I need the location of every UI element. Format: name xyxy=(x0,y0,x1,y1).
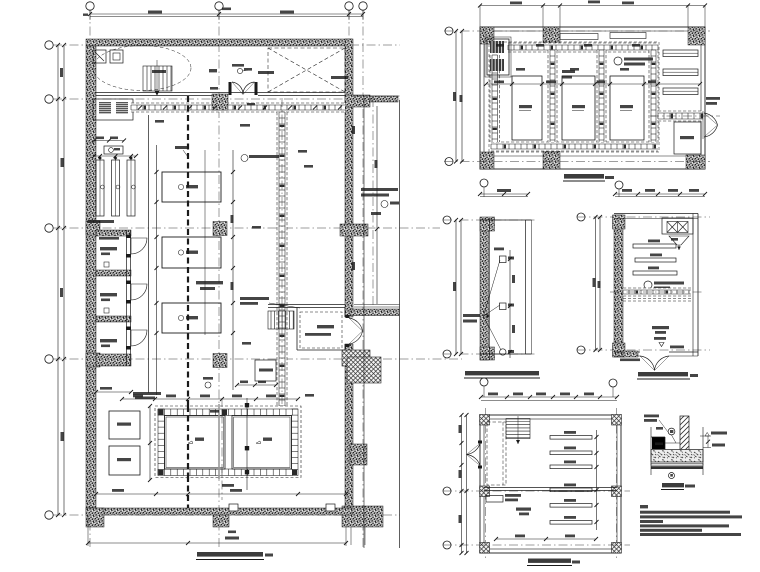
pump hall label xyxy=(196,281,223,284)
kitchen waste note xyxy=(249,155,279,158)
pump foundation P3 xyxy=(162,303,221,333)
grid bubble left B xyxy=(45,95,53,103)
heater unit 3 xyxy=(127,160,135,216)
room 3 door xyxy=(131,330,147,346)
riser left dim lines xyxy=(455,220,457,354)
grid line vertical axis 4 (x=363) xyxy=(362,10,364,548)
grid bubble left A xyxy=(45,41,53,49)
pump pit band top xyxy=(508,43,658,52)
dimension line under tank xyxy=(96,493,346,495)
grid bubble top 1 xyxy=(86,2,94,10)
pump room column top axis xyxy=(543,27,560,46)
meter room walls xyxy=(296,308,298,351)
collector room inner wall xyxy=(484,419,617,549)
room 2 door xyxy=(131,284,147,300)
roof tank box with X xyxy=(662,218,693,234)
pump room annotation circle xyxy=(614,57,622,65)
collector room corner column 4 xyxy=(612,543,622,554)
hydrant label left of door xyxy=(209,69,217,72)
rooms inner wall xyxy=(126,230,128,366)
riser wall top block xyxy=(480,217,495,231)
grid bubble left C xyxy=(45,224,53,232)
grid bubble left D xyxy=(45,355,53,363)
leader note top xyxy=(175,146,187,149)
pump bay dimension line left xyxy=(156,145,158,395)
hot water left dim lines xyxy=(595,217,597,350)
tank dimension line above xyxy=(122,398,298,400)
meter room label xyxy=(317,325,334,328)
room 1 door xyxy=(131,238,147,254)
hall equipment label xyxy=(258,71,274,74)
dimension text small (top) xyxy=(222,8,231,11)
hot water pipe 2 xyxy=(635,258,676,262)
grid line vertical axis 2 (x=219) xyxy=(218,10,220,548)
heater connection marks xyxy=(98,156,102,160)
tick marks along corridor band xyxy=(138,106,142,110)
detail symbol circle P xyxy=(668,428,675,435)
notes line 3 xyxy=(640,520,663,523)
pump room small dim text xyxy=(496,44,504,47)
collector room centerline vertical left xyxy=(485,408,487,558)
hot water room right wall xyxy=(692,214,694,357)
hot water pipe 3 xyxy=(633,271,677,275)
void with cross bracing (dashed) xyxy=(268,48,345,92)
riser title xyxy=(465,371,539,375)
hot water bottom left block xyxy=(623,351,638,357)
grid line horizontal axis D (y=359) xyxy=(53,358,462,360)
pump room corner block bottom-right xyxy=(686,155,705,169)
hot water room grid bubble top xyxy=(577,213,585,221)
room partition wall top stub xyxy=(96,230,131,236)
grid bubble top 3 xyxy=(345,2,353,10)
electrical panel 2 in entrance xyxy=(110,50,123,63)
bottom small squares on wall xyxy=(229,504,238,511)
detail floor slab concrete xyxy=(651,450,703,463)
column at corridor grid-2 crossing xyxy=(212,94,228,110)
collector pipe bar 4 xyxy=(550,488,592,492)
pump pit band right xyxy=(649,50,658,142)
main plan right wall upper segment xyxy=(345,39,353,317)
hot water room left wall xyxy=(614,215,623,357)
right wall stepped block lower xyxy=(347,357,381,383)
water tank chain wall band xyxy=(158,409,298,476)
detail dim text C20 xyxy=(655,443,663,446)
collector pipe bar 3 xyxy=(550,465,592,469)
collector room staircase xyxy=(506,419,530,439)
sump pit dim xyxy=(237,384,276,386)
staircase in entrance hall xyxy=(143,60,172,95)
room 3 label xyxy=(100,339,117,342)
hot water room column top xyxy=(613,215,626,229)
collector room corner column 1 xyxy=(480,415,490,426)
main riser bold dashed line xyxy=(187,96,189,508)
notes line 1 xyxy=(640,511,730,514)
right boundary line x=399.5 xyxy=(399,100,401,548)
collector room divider wall xyxy=(484,487,617,489)
right notes line 2 xyxy=(361,194,389,197)
louver grille 2 xyxy=(116,102,128,114)
main plan title xyxy=(197,552,263,557)
pump room grid bubble bottom xyxy=(445,158,453,166)
misc small dimension marks main hall xyxy=(240,124,250,127)
grid bubble top 2 xyxy=(215,2,223,10)
detail side lines xyxy=(650,427,652,475)
note fire hydrant hole xyxy=(331,76,348,79)
right wall stepped block upper xyxy=(342,350,370,366)
floor drain room2 xyxy=(104,308,109,313)
right corridor lines at y=304-307 xyxy=(354,304,400,306)
detail black waterstop xyxy=(652,437,665,449)
collector room label xyxy=(516,508,531,511)
pump room outer wall xyxy=(480,27,705,169)
tank 2 label xyxy=(263,438,272,441)
notes line 5 xyxy=(640,529,702,532)
door side text xyxy=(670,346,684,349)
main plan top wall xyxy=(86,39,352,46)
main plan title scale xyxy=(265,554,273,557)
drain hub 1 xyxy=(500,256,507,263)
collector pipe bar 6 xyxy=(550,521,592,525)
funnel below tank xyxy=(669,236,689,245)
tank internal pipe line xyxy=(246,398,248,490)
pump foundation B xyxy=(562,76,595,140)
riser diagram grid bubble bottom xyxy=(443,350,451,358)
right small label xyxy=(371,212,381,215)
collector small box below divider xyxy=(486,496,503,503)
pump room top dimension line xyxy=(480,5,705,7)
collector room corner column 3 xyxy=(480,543,490,554)
pump bay dim texts xyxy=(231,215,234,223)
collector room top ruler bubble 2 xyxy=(609,379,617,387)
pump room corner block top-right xyxy=(688,27,705,45)
water tank outer dashed boundary xyxy=(155,406,301,478)
pump pit band internal 1 xyxy=(548,50,557,142)
pressure gauge box xyxy=(104,146,123,154)
column at left wall grid C xyxy=(86,221,100,235)
entrance room label xyxy=(152,70,166,73)
pump pit band internal 2 xyxy=(597,50,606,142)
grid line vertical axis 1 (x=90) xyxy=(89,10,91,548)
drain leader lines xyxy=(484,260,501,316)
meter room door leaf 1 xyxy=(349,318,363,344)
pump room column bottom axis xyxy=(543,151,560,169)
hot water room bottom wall xyxy=(614,351,640,353)
main plan left wall xyxy=(86,46,96,508)
extension lines below bottom wall xyxy=(350,527,352,545)
tank left dim xyxy=(149,406,151,480)
vertical line right of pumps xyxy=(204,150,206,335)
meter room dashed inner xyxy=(300,312,342,348)
main plan bottom left corner block xyxy=(86,508,104,527)
collector room corner column 2 xyxy=(612,415,622,426)
detail right level mark 1 xyxy=(700,435,711,437)
hot water pipe trench band xyxy=(623,288,691,296)
room 1 label xyxy=(100,247,117,250)
tank corner dark cells xyxy=(159,410,164,416)
main plan right wall lower segment xyxy=(345,344,353,508)
pump pit band bottom xyxy=(491,142,658,151)
pump foundation C xyxy=(610,76,644,140)
room 1 note xyxy=(99,237,119,240)
electrical cabinet box xyxy=(487,39,509,75)
collector room grid bubble bottom xyxy=(443,541,451,549)
collector room title xyxy=(528,559,571,563)
grid bubble left E xyxy=(45,511,53,519)
header pipe top 2 xyxy=(610,33,646,39)
detail layer dark band xyxy=(651,466,703,469)
pump room label B-4 xyxy=(562,70,575,73)
hot water room grid bubble bottom xyxy=(577,346,585,354)
double door in hall wall xyxy=(232,82,255,95)
louver grille 1 xyxy=(99,102,111,114)
door label xyxy=(706,97,720,100)
riser wall bottom block xyxy=(480,347,495,360)
hot water annotation circle xyxy=(644,281,652,289)
pad 1 left of tank xyxy=(109,411,140,439)
collector room centerline vertical right xyxy=(616,408,618,558)
detail ledge lines xyxy=(651,436,665,438)
pump room grid bubble top xyxy=(445,27,453,35)
grid line vertical axis 3 (x=349) xyxy=(348,10,350,100)
collector bottom dim xyxy=(496,538,596,540)
main plan bottom right corner block xyxy=(342,506,383,527)
header pipe top 1 xyxy=(560,34,598,40)
riser dim line right xyxy=(509,250,511,358)
room partition wall 2 xyxy=(96,270,131,276)
detail bottom circle xyxy=(669,473,675,479)
detail title xyxy=(662,483,684,487)
column at grid 2/D crossing xyxy=(213,354,227,368)
notes heading xyxy=(640,505,648,508)
detail layer line 1 xyxy=(651,464,703,466)
room 2 label xyxy=(100,293,117,296)
detail text 40 xyxy=(656,427,663,430)
meter room top wall xyxy=(268,304,345,306)
pump bay widths text xyxy=(516,68,525,71)
turning radius dashed ellipse in entrance xyxy=(93,46,191,91)
room corridor dim xyxy=(96,391,131,393)
vent cap symbol xyxy=(205,382,211,388)
trench dashed lines xyxy=(623,298,691,300)
tank compartment 1 (fire reserve) xyxy=(165,416,226,470)
pump room exit double door xyxy=(704,113,718,137)
right corridor top line xyxy=(353,95,400,97)
right wall band at y=309 xyxy=(350,309,399,316)
hot water room door xyxy=(640,356,669,371)
pump room left dim lines xyxy=(455,31,457,162)
grid line horizontal axis E (y=515) xyxy=(53,514,400,516)
left dimension text 3 xyxy=(60,288,63,297)
column at left wall grid D xyxy=(86,353,100,367)
tank bottom dim text xyxy=(222,484,234,487)
distribution pipes right 3 xyxy=(663,88,698,95)
pump pit outline dashed xyxy=(489,42,659,152)
riser diagram grid bubble top xyxy=(443,216,451,224)
left dimension line outer xyxy=(57,45,59,515)
dimension text 9000 (top left bay) xyxy=(148,11,162,14)
pump foundation P1 xyxy=(162,172,221,202)
pump room title xyxy=(564,174,604,179)
left dimension line inner xyxy=(63,45,65,515)
collector room left dim lines xyxy=(461,415,463,553)
grid line 2 through tank (gray) xyxy=(218,404,220,479)
right dim marks xyxy=(376,106,378,304)
distribution pipes right 1 xyxy=(663,50,698,57)
top dimension line of main plan xyxy=(90,13,363,15)
left dimension text 1 xyxy=(60,68,63,77)
dimension line above gauge box xyxy=(94,140,124,142)
pump bay dimension line right xyxy=(232,150,234,390)
floor drain room1 xyxy=(104,262,109,267)
main plan bottom wall xyxy=(86,508,352,515)
collector room left door xyxy=(467,444,481,466)
distribution pipes right 2 xyxy=(663,69,698,76)
pipe chase centerline xyxy=(281,98,283,410)
stair enclosure dashed xyxy=(487,422,506,485)
heater unit 1 xyxy=(96,160,104,216)
heater labels text xyxy=(88,220,114,223)
tank 1 label xyxy=(195,438,204,441)
right wall band at corridor top xyxy=(345,95,370,107)
small room bottom right of pump room xyxy=(674,122,701,154)
collector right dim line xyxy=(596,430,598,530)
collector room top ruler bubble 1 xyxy=(480,378,488,386)
bottom wall protrusion xyxy=(213,515,229,527)
scale ruler left below pump room xyxy=(480,179,488,187)
pump foundation A xyxy=(512,76,542,140)
collector room outer wall xyxy=(480,415,621,553)
sump pit box xyxy=(255,360,276,381)
collector room mid column right xyxy=(612,486,622,497)
interior wall below entrance hall xyxy=(96,92,345,94)
pump room internal dimension string xyxy=(486,83,700,85)
right corridor centerline xyxy=(372,98,374,308)
cabinet louver 1 xyxy=(490,41,504,53)
dimension text far left tick xyxy=(83,14,88,16)
pump foundation P2 xyxy=(162,237,221,268)
room partition wall bottom xyxy=(96,354,131,366)
dimension line above heaters xyxy=(94,155,136,157)
hot water room column bottom xyxy=(613,343,626,357)
level mark +0.00 xyxy=(654,337,666,340)
drain hub 3 (circle) xyxy=(500,349,506,355)
riser small dim text xyxy=(494,248,504,251)
collector pipe bar 2 xyxy=(550,451,592,455)
right boundary line x=364 xyxy=(363,96,365,548)
column at grid 2/C crossing xyxy=(213,222,227,236)
column on right wall at axis C xyxy=(340,224,368,236)
left dimension text 2 xyxy=(61,158,65,167)
grid line horizontal axis A (y=45) xyxy=(53,44,400,46)
hot water pipe 1 xyxy=(633,244,676,248)
grid line horizontal axis B (y=99) xyxy=(53,98,400,100)
hall partition line x=148 xyxy=(148,115,150,393)
collector pipe bar 1 xyxy=(550,436,592,440)
collector room top dimension lines xyxy=(481,396,617,398)
pump room inner wall lines xyxy=(480,30,705,32)
louver box on left wall xyxy=(93,99,133,120)
bottom dimension line xyxy=(88,542,346,544)
horizontal pipe gallery band along top corridor xyxy=(131,103,345,112)
detail leader text top-left xyxy=(644,415,659,418)
detail right tick xyxy=(707,436,709,448)
column on right wall lower xyxy=(350,444,367,465)
circled mark in hall xyxy=(237,68,242,73)
detail right level mark 2 xyxy=(703,447,711,449)
riser plan right boundary xyxy=(525,220,527,354)
notes line 4 xyxy=(640,524,729,527)
cabinet louver 2 xyxy=(490,59,504,71)
hall door label xyxy=(232,64,244,67)
heater unit 2 xyxy=(112,160,120,216)
electrical panel 1 in entrance xyxy=(93,50,106,63)
collector room grid bubble mid xyxy=(443,487,451,495)
meter room door jambs xyxy=(346,315,350,318)
pump room corner block bottom-left xyxy=(480,152,494,169)
right notes line 1 xyxy=(361,188,398,191)
notes line 2 xyxy=(640,515,742,518)
left dimension text 4 xyxy=(61,432,65,441)
drain hub 2 xyxy=(500,303,507,310)
hot water room title xyxy=(638,372,688,376)
room annotation below xyxy=(133,392,161,395)
pad 2 left of tank xyxy=(109,446,140,475)
riser note text xyxy=(463,314,480,317)
dimension text 9000 (top right bay) xyxy=(280,11,294,14)
bold riser dashed line through tank xyxy=(187,406,189,480)
notes line 6 xyxy=(640,533,741,536)
tank compartment 2 (domestic) xyxy=(232,416,292,470)
right corridor band thin xyxy=(370,96,398,102)
vertical pipe chase band xyxy=(277,112,287,406)
meter room ladder hatch xyxy=(268,311,294,329)
detail wall hatched xyxy=(680,416,689,450)
room partition wall 3 xyxy=(96,316,131,322)
riser wall xyxy=(480,218,489,360)
meter room leader note xyxy=(240,297,269,300)
riser wall inner face xyxy=(489,218,491,360)
right corridor pipe band xyxy=(658,111,703,121)
grid line horizontal axis C (y=228) xyxy=(53,227,440,229)
grid bubble top 4 xyxy=(359,2,367,10)
collector room mid column left xyxy=(480,486,490,497)
scale ruler right below pump room xyxy=(615,181,623,189)
pump room corner block top-left xyxy=(480,27,494,44)
water tank room label xyxy=(652,326,669,329)
circled drain symbol xyxy=(381,201,388,208)
hot water room top wall xyxy=(614,213,698,215)
collector pipe bar 5 xyxy=(550,504,592,508)
pump pit band left xyxy=(490,55,500,142)
